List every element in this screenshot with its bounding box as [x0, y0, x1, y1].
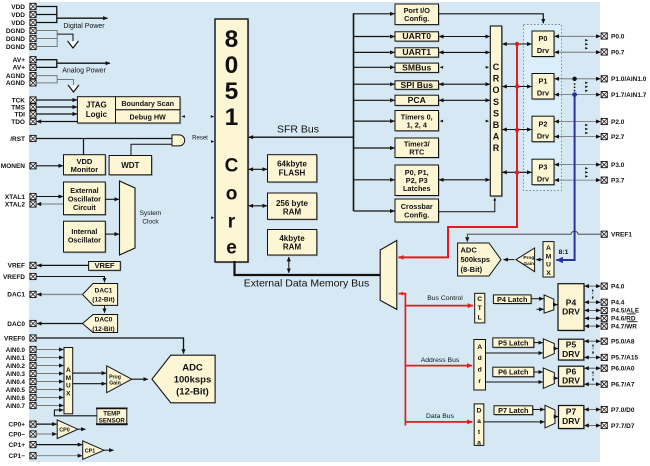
svg-text:AGND: AGND	[6, 80, 25, 87]
wire P3 Drv to P3.0 pin	[555, 164, 601, 166]
pin TCK	[30, 97, 36, 103]
svg-text:Boundary Scan: Boundary Scan	[121, 99, 174, 108]
pin XTAL2	[30, 201, 36, 207]
svg-text:DGND: DGND	[6, 44, 25, 51]
wire P5 mux to drv	[554, 348, 558, 350]
svg-text:AIN0.1: AIN0.1	[6, 355, 26, 362]
wire DGND join	[36, 30, 57, 32]
svg-text:CP0−: CP0−	[9, 431, 26, 438]
block TEMP SENSOR	[98, 409, 128, 425]
wire SFR bus vertical	[353, 13, 355, 211]
block 8051 core	[216, 20, 249, 263]
wire temp sensor to AMUX	[54, 410, 97, 416]
svg-text:DAC0: DAC0	[7, 321, 25, 328]
wire Timers to crossbar arrows	[440, 120, 443, 123]
block CROSSBAR	[492, 27, 504, 197]
svg-text:P5.0/A8: P5.0/A8	[611, 339, 635, 346]
svg-text:d: d	[478, 367, 482, 374]
wire analog power arrow	[57, 62, 110, 64]
svg-text:SFR Bus: SFR Bus	[277, 124, 319, 136]
wire WDT to reset gate	[131, 144, 172, 155]
pin XTAL1	[30, 193, 36, 199]
wire crossbar to P1 Drv	[502, 86, 531, 88]
svg-text:o: o	[226, 184, 238, 205]
svg-text:U: U	[546, 262, 551, 269]
svg-text:P4.7/WR: P4.7/WR	[611, 323, 637, 330]
svg-text:P2.7: P2.7	[611, 134, 625, 141]
wire AGND to ground arrow	[57, 80, 73, 86]
svg-text:DAC1: DAC1	[7, 292, 25, 299]
pin VREF1	[601, 231, 607, 237]
svg-text:SMBus: SMBus	[402, 62, 431, 72]
amp prog gain	[107, 366, 132, 393]
svg-text:Analog Power: Analog Power	[62, 68, 106, 75]
svg-text:U: U	[66, 383, 71, 390]
wire CP0- input	[36, 433, 56, 435]
wire P0 Drv to P0.7 pin	[555, 51, 601, 53]
pin TDI	[30, 111, 36, 117]
pin AIN0.0	[30, 346, 36, 352]
svg-text:VREF: VREF	[94, 261, 114, 270]
svg-text:Config.: Config.	[404, 210, 429, 219]
svg-text:DGND: DGND	[6, 28, 25, 35]
pin P1.0/AIN1.0	[601, 76, 607, 82]
svg-text:C: C	[225, 156, 239, 177]
svg-text:C: C	[477, 296, 482, 303]
svg-text:DRV: DRV	[562, 376, 580, 386]
pin VREF0	[30, 335, 36, 341]
svg-text:CP0+: CP0+	[9, 421, 26, 428]
pin AGND	[30, 73, 36, 79]
svg-text:VDD: VDD	[11, 12, 25, 19]
wire AMUX2 to prog gain 2	[536, 259, 542, 261]
wire AV+ join	[36, 59, 57, 61]
svg-text:DAC1: DAC1	[95, 287, 113, 294]
svg-text:TDO: TDO	[11, 119, 25, 126]
svg-text:C: C	[493, 62, 500, 72]
block P5 Latch	[494, 339, 535, 348]
wire SFR stub to Timers	[354, 120, 395, 122]
pin P0.0	[601, 33, 607, 39]
svg-text:/RST: /RST	[10, 136, 25, 143]
svg-text:XTAL1: XTAL1	[5, 194, 25, 201]
block Timer3/RTC	[396, 139, 440, 159]
arrow red into mux	[399, 292, 404, 296]
wire UART1 to crossbar	[439, 51, 490, 53]
wire P3 Drv to P3.7 pin	[555, 179, 601, 181]
wire P4 DRV pin row 318.3	[585, 317, 601, 319]
block P7 Latch	[495, 407, 534, 416]
wire CP1 output	[104, 449, 114, 451]
block 4kbyte RAM	[269, 231, 318, 257]
svg-text:P7.7/D7: P7.7/D7	[611, 423, 635, 430]
svg-text:Prog: Prog	[109, 374, 121, 380]
svg-text:AIN0.3: AIN0.3	[6, 371, 26, 378]
block SMBus	[396, 64, 440, 73]
wire digital power arrow	[57, 17, 108, 19]
wire P1 Drv to P1.7 pin	[555, 94, 601, 96]
wire SFR stub to PCA	[354, 99, 395, 101]
pin AIN0.5	[30, 386, 36, 392]
svg-text:Gain: Gain	[523, 261, 534, 267]
wire SFR stub to UART0	[354, 36, 395, 38]
wire AMUX to prog gain b	[73, 383, 106, 385]
svg-text:P4 Latch: P4 Latch	[497, 295, 527, 304]
svg-text:Bus Control: Bus Control	[427, 295, 463, 302]
wire Crossbar Config to crossbar	[439, 200, 495, 212]
svg-text:AV+: AV+	[13, 65, 26, 72]
svg-text:ADC: ADC	[461, 245, 478, 254]
wire P5 DRV pin row 2	[584, 356, 600, 358]
dac DAC1	[83, 284, 118, 306]
mux AMUX	[64, 348, 73, 414]
svg-text:RAM: RAM	[283, 242, 302, 251]
svg-text:D: D	[477, 407, 482, 414]
pin MONEN	[30, 163, 36, 169]
ellipsis dots P4	[592, 290, 594, 300]
wire CP0 output	[78, 428, 86, 430]
wire AMUX to prog gain a	[73, 372, 106, 374]
pin AIN0.3	[30, 370, 36, 376]
wire PCA to crossbar	[439, 99, 490, 101]
svg-text:DRV: DRV	[562, 349, 580, 359]
pin AGND	[30, 80, 36, 86]
svg-text:S: S	[493, 97, 499, 107]
mux P7	[545, 405, 555, 428]
pin VREFD	[30, 273, 36, 279]
svg-text:(12-Bit): (12-Bit)	[92, 297, 114, 304]
pin P3.0	[601, 162, 607, 168]
wire P4 DRV pin row 286.1	[585, 285, 601, 287]
svg-text:VREF1: VREF1	[611, 232, 632, 239]
wire AIN0.7 to AMUX	[36, 405, 63, 407]
wire AIN0.4 to AMUX	[36, 381, 63, 383]
wire Latches to crossbar	[439, 179, 490, 181]
svg-text:X: X	[546, 270, 551, 277]
block Addr	[474, 340, 486, 391]
svg-text:P0.0: P0.0	[611, 33, 625, 40]
wire crossbar to P0 Drv	[502, 43, 531, 45]
svg-text:1: 1	[225, 104, 239, 131]
wire SFR bus horizontal	[249, 136, 354, 138]
wire SFR stub to SMBus	[354, 66, 395, 68]
wire P4 DRV pin row 302.2	[585, 301, 601, 303]
svg-text:Address Bus: Address Bus	[421, 357, 460, 364]
wire P7 DRV pin row 1	[584, 409, 600, 411]
wire P4 DRV pin row 326.1	[585, 325, 601, 327]
block WDT	[110, 157, 153, 176]
pin DAC0	[30, 320, 36, 326]
wire UART0 to crossbar	[439, 36, 490, 38]
svg-text:TCK: TCK	[12, 97, 26, 104]
block PCA	[396, 96, 440, 106]
svg-text:d: d	[478, 355, 482, 362]
svg-text:TDI: TDI	[15, 111, 26, 118]
pin VDD	[30, 11, 36, 17]
svg-text:UART1: UART1	[402, 47, 431, 57]
wire DAC1 to DAC0	[104, 305, 106, 312]
svg-text:VDD: VDD	[11, 4, 25, 11]
wire P6 DRV pin row 1	[584, 367, 600, 369]
svg-text:Drv: Drv	[537, 131, 550, 140]
wire P6 DRV pin row 2	[584, 383, 600, 385]
svg-text:CP1+: CP1+	[9, 442, 26, 449]
wire VDD join	[36, 6, 57, 8]
pin CP1&#8722;	[30, 453, 36, 459]
svg-text:AIN0.5: AIN0.5	[6, 387, 26, 394]
block CTL	[475, 293, 485, 323]
wire DGND to ground arrow	[57, 34, 73, 41]
svg-text:FLASH: FLASH	[279, 168, 306, 177]
junction red P2	[515, 128, 519, 132]
pin /RST	[30, 135, 36, 141]
svg-text:P2: P2	[539, 119, 548, 128]
wire crossbar to P3 Drv	[502, 171, 531, 173]
block P0 Drv	[533, 32, 555, 58]
block JTAG Logic	[79, 98, 117, 124]
svg-text:O: O	[493, 85, 500, 95]
svg-text:(12-Bit): (12-Bit)	[92, 326, 114, 333]
wire Debug HW to core	[182, 115, 185, 118]
junction red P3	[515, 170, 519, 174]
wire TDI	[36, 113, 77, 115]
wire int osc to mux	[105, 233, 119, 235]
block P6 Latch	[494, 368, 535, 378]
block 64kbyte FLASH	[269, 156, 318, 183]
svg-text:100ksps: 100ksps	[174, 374, 212, 385]
pin P5.0/A8	[601, 338, 607, 344]
wire red bus control	[405, 305, 473, 307]
pin AIN0.7	[30, 402, 36, 408]
svg-text:DRV: DRV	[562, 416, 580, 426]
block VDD Monitor	[65, 156, 107, 176]
pin P5.7/A15	[601, 354, 607, 360]
wire AIN0.2 to AMUX	[36, 365, 63, 367]
wire SFR stub to Timer3/RTC	[354, 147, 395, 149]
wire addr to P5 mux	[486, 352, 543, 354]
pin DGND	[30, 43, 36, 49]
wire VREF1 to ADC2	[467, 231, 600, 241]
wire stub to P4 mux	[537, 308, 544, 310]
svg-text:P3.7: P3.7	[611, 177, 625, 184]
svg-text:A: A	[66, 367, 71, 374]
comparator CP0	[57, 420, 78, 439]
wire VREFD to DAC1	[36, 277, 104, 283]
wire P5 DRV pin row 1	[584, 340, 600, 342]
wire red address bus	[405, 365, 472, 367]
pin CP0&#8722;	[30, 431, 36, 437]
wire SFR stub to Port I/O Config.	[354, 13, 395, 15]
svg-text:P4.0: P4.0	[611, 283, 625, 290]
svg-text:VREFD: VREFD	[3, 274, 25, 281]
mux P5	[543, 339, 554, 359]
svg-text:VDD: VDD	[11, 20, 25, 27]
block P1 Drv	[533, 75, 555, 101]
wire CP1- input	[36, 455, 82, 457]
svg-text:1, 2, 4: 1, 2, 4	[407, 120, 428, 129]
svg-text:P6.0/A0: P6.0/A0	[611, 366, 635, 373]
svg-text:L: L	[478, 315, 482, 322]
svg-text:MONEN: MONEN	[1, 163, 26, 170]
wire core-ram	[249, 205, 267, 207]
comparator CP1	[83, 441, 104, 460]
svg-text:Clock: Clock	[142, 218, 159, 225]
svg-text:A: A	[477, 344, 482, 351]
block Data	[474, 404, 484, 446]
svg-text:8:1: 8:1	[559, 249, 569, 256]
block P7 DRV	[560, 407, 585, 430]
wire TCK	[36, 99, 77, 101]
wire /RST branch to VDD monitor	[83, 139, 85, 155]
ellipsis dots P5	[592, 345, 594, 355]
pin P4.5/ALE	[601, 307, 607, 313]
svg-text:TMS: TMS	[11, 104, 25, 111]
pin TMS	[30, 104, 36, 110]
wire P5 latch to mux	[534, 342, 543, 344]
block P2 Drv	[533, 117, 555, 142]
pin DAC1	[30, 291, 36, 297]
svg-text:CP1−: CP1−	[9, 453, 26, 460]
mux AMUX2 8:1	[543, 242, 554, 277]
pin P1.7/AIN1.7	[601, 92, 607, 98]
pin AV+	[30, 57, 36, 63]
wire VREF to pin	[37, 264, 88, 266]
ellipsis arrows P1 pins	[585, 81, 588, 84]
svg-text:Reset: Reset	[192, 135, 208, 141]
svg-text:P5 Latch: P5 Latch	[498, 338, 528, 347]
wire external data memory bus	[235, 261, 381, 275]
svg-text:Latches: Latches	[403, 184, 431, 193]
svg-text:X: X	[66, 390, 71, 397]
wire AIN0.3 to AMUX	[36, 373, 63, 375]
wire SFR stub to SPI Bus	[354, 83, 395, 85]
block 256 byte RAM	[269, 194, 318, 220]
pin P4.7/WR	[601, 323, 607, 329]
svg-text:XTAL2: XTAL2	[5, 201, 25, 208]
svg-text:PCA: PCA	[408, 95, 426, 105]
svg-text:5: 5	[225, 78, 239, 105]
svg-text:S: S	[493, 108, 499, 118]
svg-text:8: 8	[225, 26, 239, 53]
svg-text:CP0: CP0	[59, 427, 70, 433]
wire prog gain 2 to ADC2	[504, 259, 515, 261]
wire P4 latch to mux	[532, 298, 544, 300]
svg-text:M: M	[546, 253, 552, 260]
wire ram to edm bus	[288, 257, 290, 273]
wire P2 Drv to P2.7 pin	[555, 136, 601, 138]
svg-text:a: a	[477, 440, 481, 447]
ellipsis dots P6	[592, 372, 594, 382]
svg-text:Logic: Logic	[86, 110, 108, 119]
mux P6	[543, 368, 554, 389]
svg-text:(12-Bit): (12-Bit)	[176, 386, 209, 397]
wire data to P7 mux	[484, 421, 545, 423]
block P6 DRV	[560, 367, 585, 387]
wire AIN0.6 to AMUX	[36, 397, 63, 399]
ellipsis dots P1 analog	[574, 83, 576, 85]
svg-text:P7.0/D0: P7.0/D0	[611, 407, 635, 414]
wire P7 DRV pin row 2	[584, 425, 600, 427]
svg-text:P4.4: P4.4	[611, 300, 625, 307]
svg-text:Config.: Config.	[404, 14, 429, 23]
wire MONEN	[36, 165, 63, 167]
svg-text:R: R	[493, 143, 500, 153]
svg-text:AIN0.2: AIN0.2	[6, 363, 26, 370]
svg-text:P7 Latch: P7 Latch	[498, 406, 528, 415]
svg-text:Drv: Drv	[537, 46, 550, 55]
pin P2.7	[601, 134, 607, 140]
svg-text:Drv: Drv	[537, 174, 550, 183]
wire P6 mux to drv	[554, 377, 558, 379]
block Latches	[396, 166, 440, 197]
svg-text:64kbyte: 64kbyte	[277, 160, 307, 169]
svg-text:Debug HW: Debug HW	[130, 112, 167, 121]
svg-text:DRV: DRV	[562, 307, 580, 317]
wire /RST	[36, 138, 172, 140]
svg-text:Prog: Prog	[523, 255, 534, 261]
wire Port I/O Config to port drivers	[439, 14, 544, 23]
bus blue AIN1 to AMUX	[556, 95, 574, 260]
pin AIN0.4	[30, 378, 36, 384]
svg-text:AIN0.7: AIN0.7	[6, 403, 26, 410]
mux external memory interface	[380, 241, 397, 310]
adc ADC2 500ksps	[458, 243, 501, 276]
svg-text:WDT: WDT	[121, 161, 139, 170]
svg-text:r: r	[228, 212, 236, 233]
wire red data bus	[405, 421, 472, 423]
svg-text:P6 Latch: P6 Latch	[498, 368, 528, 377]
block P4 DRV	[559, 285, 585, 332]
ground symbol analog	[68, 85, 78, 92]
svg-text:P0: P0	[539, 34, 548, 43]
pin P4.4	[601, 299, 607, 305]
adc ADC0 100ksps	[152, 355, 215, 403]
svg-text:B: B	[493, 120, 500, 130]
svg-text:Digital Power: Digital Power	[63, 23, 105, 30]
pin AV+	[30, 64, 36, 70]
svg-text:AV+: AV+	[13, 57, 26, 64]
junction red P0	[515, 42, 519, 46]
block Port I/O Config.	[396, 5, 440, 26]
svg-text:e: e	[226, 238, 237, 259]
svg-text:JTAG: JTAG	[86, 101, 107, 110]
wire XTAL2	[37, 203, 64, 205]
wire P1 Drv to P1.0 pin	[555, 78, 601, 80]
wire XTAL1	[36, 196, 63, 198]
svg-text:TEMP: TEMP	[103, 411, 120, 418]
pin VREF	[30, 262, 36, 268]
dac DAC0	[83, 315, 118, 333]
pin CP0+	[30, 421, 36, 427]
mux P4	[544, 295, 554, 313]
pin P0.7	[601, 49, 607, 55]
svg-text:RTC: RTC	[409, 148, 425, 157]
svg-text:AGND: AGND	[6, 73, 25, 80]
svg-text:A: A	[546, 245, 551, 252]
svg-text:VREF: VREF	[8, 263, 25, 270]
pin P4.0	[601, 283, 607, 289]
ellipsis arrows P0 pins	[585, 39, 588, 42]
block Debug HW	[117, 111, 182, 124]
svg-text:A: A	[493, 132, 500, 142]
svg-text:Monitor: Monitor	[71, 165, 99, 174]
svg-text:CP1: CP1	[85, 448, 96, 454]
block UART1	[396, 49, 440, 58]
svg-text:P5.7/A15: P5.7/A15	[611, 355, 638, 362]
wire DAC1 to pin	[37, 293, 82, 295]
wire TMS	[36, 106, 77, 108]
wire VREF0 to ADC0	[36, 338, 183, 354]
